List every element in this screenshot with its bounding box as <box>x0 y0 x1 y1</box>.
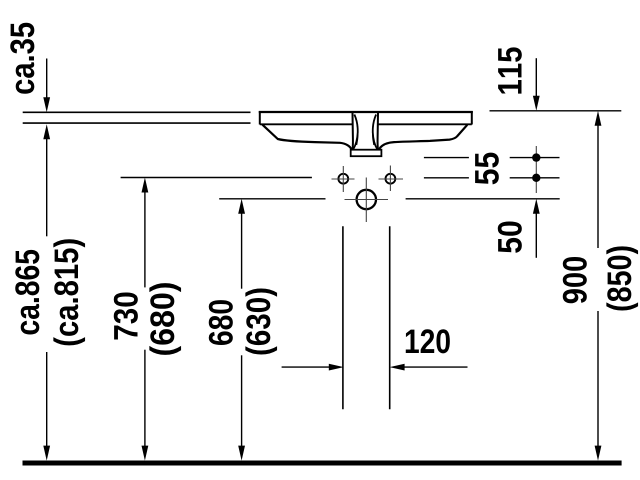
55 lower row line left <box>424 177 469 179</box>
reference line drain level left <box>219 198 325 200</box>
55 upper row line left <box>424 157 469 159</box>
label 680 <box>209 300 233 345</box>
countertop top line <box>23 111 251 113</box>
dimension 115 line with arrow <box>536 58 537 98</box>
reference line top right (rim level) <box>490 110 622 112</box>
washbasin bowl left outline <box>262 125 351 150</box>
washbasin rim bottom left <box>260 123 352 125</box>
dimension ca.35 upper arrow <box>46 59 47 100</box>
washbasin rim top <box>259 111 473 113</box>
label 55 <box>475 153 499 185</box>
drain trap bottom box <box>351 150 382 157</box>
label 50 <box>498 221 522 252</box>
dimension 120 left arrow <box>282 366 330 367</box>
dots column axis <box>535 146 537 193</box>
55 upper row line right <box>510 157 560 159</box>
washbasin bowl right outline <box>379 125 468 150</box>
dimension 900 lower segment with floor arrow <box>597 311 598 450</box>
label ca.35 <box>10 23 34 94</box>
dimension 900 upper segment with arrow <box>595 111 602 126</box>
floor line <box>23 461 622 466</box>
drain trap right edge <box>377 113 380 150</box>
faucet hole left crosshair <box>332 166 355 192</box>
supply pipe left <box>342 226 344 409</box>
55 lower row line right <box>510 177 560 179</box>
label ca.865 <box>15 250 39 335</box>
dimension 680 upper segment with arrow <box>238 199 245 214</box>
dimension ca.35 lower arrow / ca.865 upper segment <box>43 124 50 139</box>
drain trap inner funnel left arc <box>353 115 357 150</box>
drain trap left edge <box>351 113 354 150</box>
label (630) <box>245 288 277 354</box>
faucet hole right crosshair <box>379 166 404 192</box>
drain trap inner funnel left arc echo <box>356 120 358 145</box>
label 900 <box>563 257 587 303</box>
drain trap inner funnel right arc echo <box>373 120 375 145</box>
washbasin rim bottom right <box>379 123 472 125</box>
label 115 <box>498 47 522 93</box>
label 120 <box>406 329 450 353</box>
label 730 <box>114 292 138 339</box>
dimension ca.865 lower segment with floor arrow <box>46 352 47 450</box>
dot lower <box>532 174 540 182</box>
label (850) <box>606 246 638 310</box>
dimension 730 lower segment with floor arrow <box>144 350 145 450</box>
faucet hole left circle <box>338 174 348 184</box>
reference line drain level right <box>406 198 560 200</box>
faucet hole right circle <box>386 174 396 184</box>
drain hole crosshair <box>345 178 389 223</box>
reference line faucet level <box>121 177 312 179</box>
drain hole circle <box>357 190 376 209</box>
dimension 120 right arrow <box>390 364 405 371</box>
dimension 680 lower segment with floor arrow <box>241 355 242 450</box>
dimension 50 line with arrow <box>533 199 540 214</box>
washbasin rim left cap <box>259 111 261 125</box>
label (680) <box>149 283 181 355</box>
dot upper <box>532 153 540 161</box>
supply pipe right <box>389 226 391 409</box>
dimension 730 upper segment with arrow <box>142 178 149 193</box>
washbasin rim right cap <box>471 111 473 125</box>
label (ca.815) <box>53 239 85 345</box>
countertop bottom line <box>23 122 251 124</box>
drain trap inner funnel right arc <box>373 115 377 150</box>
